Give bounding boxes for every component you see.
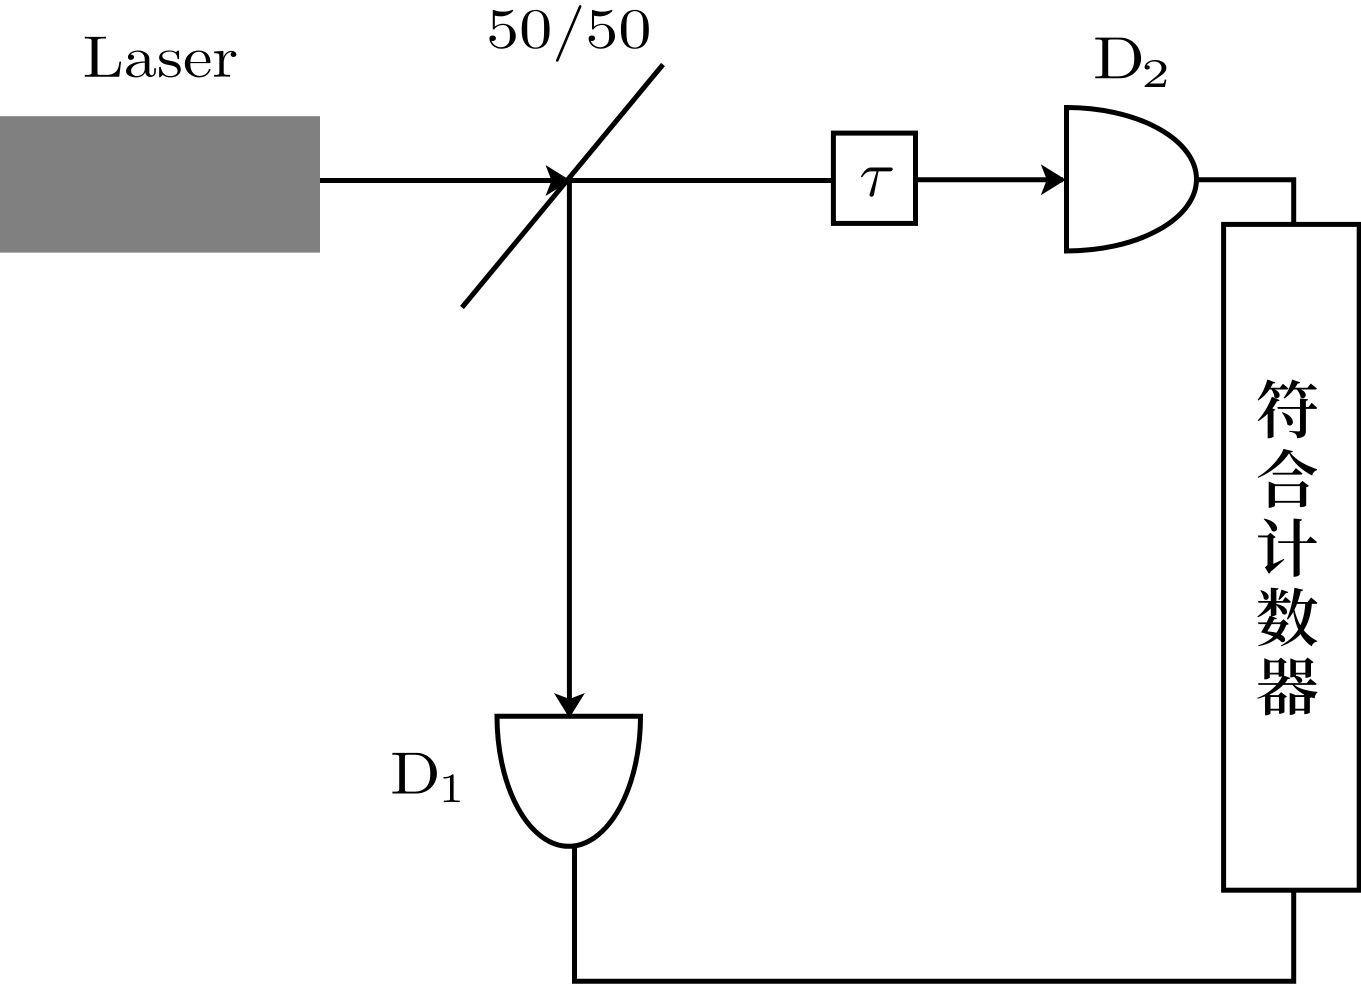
label Laser (85, 37, 237, 78)
label tau (861, 168, 893, 197)
arrowhead into D2 (1041, 164, 1066, 195)
label 50/50 (489, 5, 648, 62)
delay box (833, 133, 915, 223)
wire: delay box to detector D2 (916, 177, 1064, 182)
wire: D1 output to coincidence counter bottom (575, 846, 1294, 982)
label D2 (1095, 38, 1166, 87)
detector D1 (497, 716, 641, 846)
detector D2 (1067, 108, 1197, 252)
wire: laser output beam to delay box through beamsplitter (320, 178, 834, 183)
label D1 (392, 753, 459, 802)
wire: beamsplitter down to detector D1 (567, 181, 572, 711)
arrowhead at beamsplitter (546, 165, 571, 196)
beamsplitter 50/50 (462, 65, 663, 308)
laser box (0, 116, 320, 252)
coincidence counter box (1224, 224, 1360, 890)
arrowhead into D1 (554, 693, 585, 718)
wire: D2 output to coincidence counter (1196, 180, 1294, 226)
label coincidence counter (Chinese) (1257, 379, 1317, 715)
